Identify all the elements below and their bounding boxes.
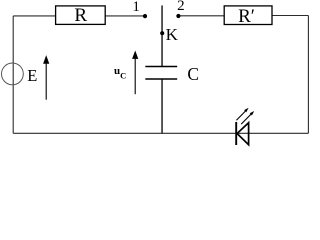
svg-text:K: K: [166, 25, 179, 44]
svg-text:C: C: [187, 64, 199, 84]
svg-text:R′: R′: [238, 6, 255, 27]
svg-text:1: 1: [132, 0, 140, 15]
svg-text:R: R: [74, 5, 87, 26]
svg-text:2: 2: [177, 0, 185, 14]
svg-text:uC: uC: [114, 65, 126, 81]
svg-text:E: E: [27, 66, 37, 85]
